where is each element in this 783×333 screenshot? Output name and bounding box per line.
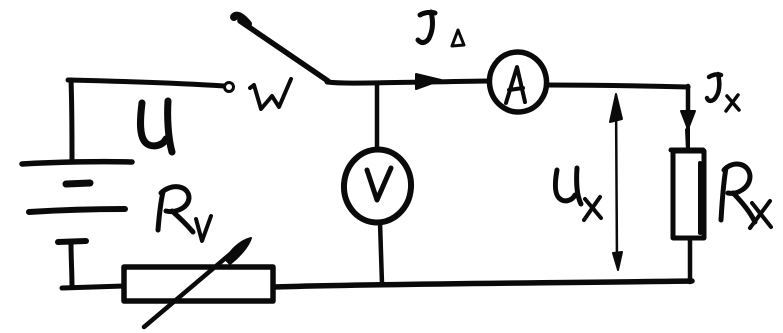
label W [250,79,291,109]
rheostat R_v arrow head [226,238,251,264]
label J_x [707,74,739,111]
label J_A [418,12,464,46]
resistor R_x body [671,150,704,238]
ammeter A1 body [486,48,551,115]
wire R_x bottom [688,238,693,282]
label U_x [555,168,601,220]
wire top middle [327,81,489,83]
wire corner to R_x [686,126,690,150]
rheostat R_v arrow [144,250,235,327]
battery U plate 4 [58,241,86,242]
wire R_x top [687,130,688,151]
battery U plate 2 [66,183,90,184]
battery U plate 1 [22,162,132,164]
wire battery top [68,80,224,86]
wire voltmeter top [375,84,380,150]
rheostat R_v body [124,267,273,301]
wire voltmeter bottom [380,222,382,284]
voltage arrow U_x head top [610,94,622,122]
current arrow J_x head [681,111,695,129]
voltage arrow U_x line [616,98,617,264]
wire battery bottom [62,286,124,288]
wire bottom [274,281,692,287]
label R_v [158,187,211,241]
wire battery left drop [71,80,72,162]
label R_x [721,164,771,228]
label U [140,101,172,152]
switch W blade tip [234,16,248,24]
ammeter A1 letter [506,67,525,103]
battery U stem [71,242,72,287]
voltmeter V1 body [341,147,414,226]
voltmeter V1 letter [367,168,391,200]
switch W blade [240,21,328,81]
current arrow J_x stem [686,86,691,114]
current arrow J_A [416,74,441,89]
switch terminal [225,83,234,92]
wire ammeter to right corner [547,85,688,87]
voltage arrow U_x head bottom [613,252,622,270]
battery U plate 3 [29,209,125,212]
